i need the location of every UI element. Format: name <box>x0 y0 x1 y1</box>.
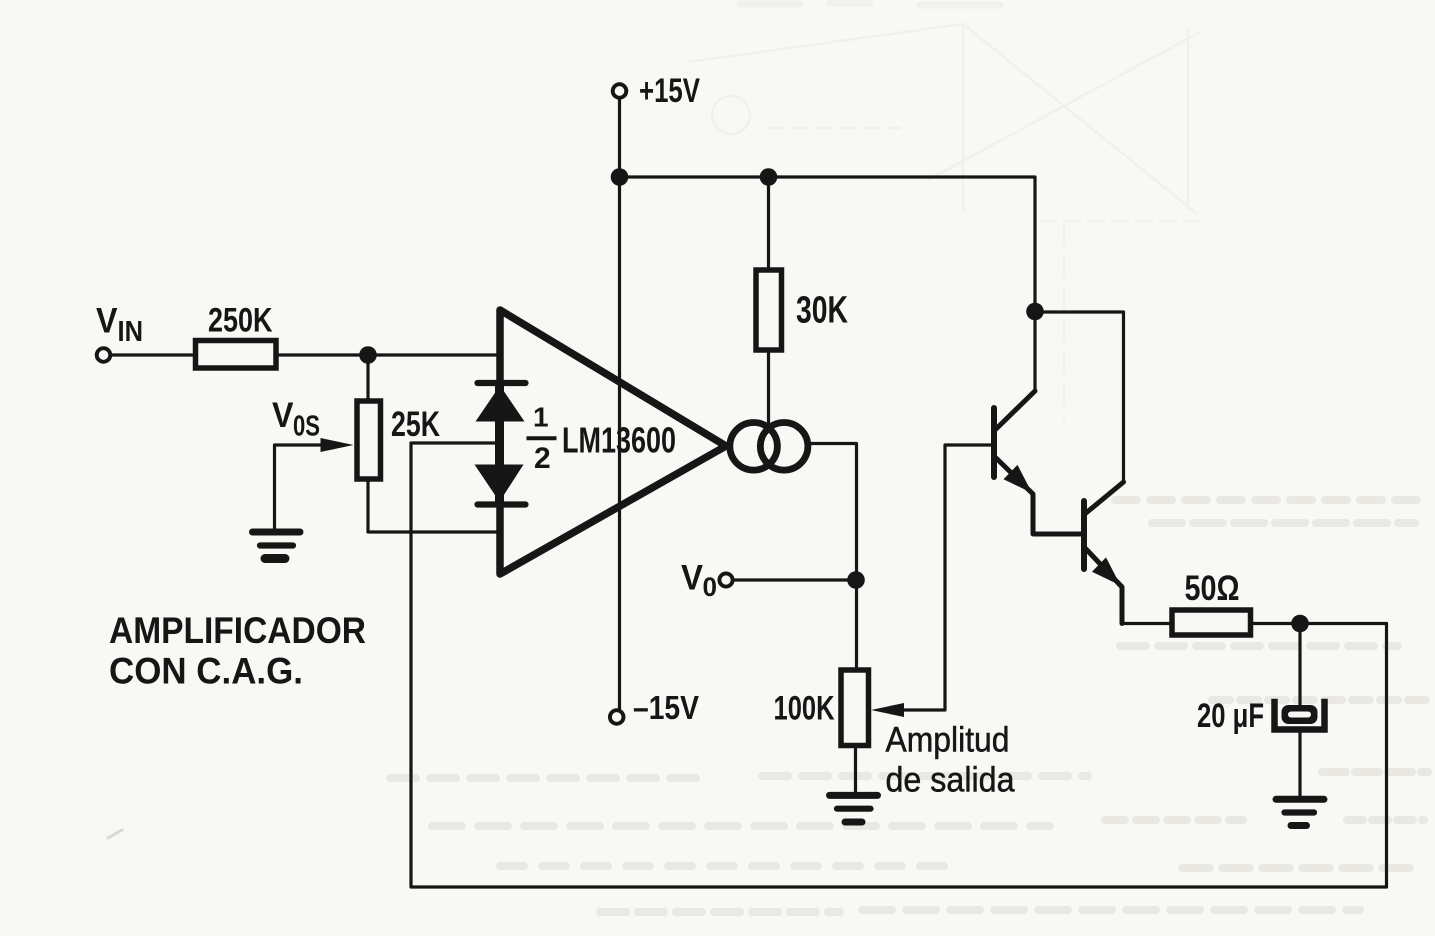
resistor 250K <box>196 341 277 369</box>
junction dot +15V rail left <box>611 168 629 186</box>
transistor Q2 collector <box>1086 482 1124 513</box>
svg-text:100K: 100K <box>774 690 835 728</box>
svg-text:+15V: +15V <box>639 72 700 110</box>
svg-text:0S: 0S <box>293 411 320 443</box>
wire +15V vertical power line through op-amp to -15V <box>618 99 621 710</box>
wire V0 terminal to node <box>733 578 856 581</box>
wire OTA output to V0 node and 100K pot <box>806 444 857 668</box>
capacitor C1 20uF top plate <box>1282 705 1318 724</box>
svg-text:2: 2 <box>534 442 551 475</box>
svg-text:LM13600: LM13600 <box>562 420 676 461</box>
svg-text:50Ω: 50Ω <box>1185 569 1240 608</box>
transistor Q1 base bar <box>991 408 997 477</box>
svg-text:V: V <box>272 396 294 435</box>
wire 20uF capacitor to ground <box>1298 731 1301 796</box>
resistor 50 ohm <box>1172 610 1251 635</box>
svg-text:1: 1 <box>533 402 549 433</box>
svg-text:0: 0 <box>703 572 718 602</box>
diode D2 lower triangle (pointing down) <box>475 465 524 502</box>
transistor Q1 collector <box>996 391 1035 429</box>
diode D2 lower cathode bar <box>478 501 526 507</box>
capacitor C1 20uF cup <box>1275 702 1325 730</box>
wire node A down to 25K pot <box>366 355 369 398</box>
svg-text:de salida: de salida <box>886 761 1015 800</box>
junction dot V0 node <box>847 571 865 589</box>
svg-text:20 μF: 20 μF <box>1197 697 1264 735</box>
OTA output current-source symbol (double circle) <box>730 423 808 471</box>
transistor Q1 emitter arrow <box>1004 465 1033 493</box>
wire VIN terminal to 250K <box>111 353 194 356</box>
resistor 30K <box>756 270 782 350</box>
svg-text:Amplitud: Amplitud <box>886 721 1010 760</box>
svg-text:AMPLIFICADOR: AMPLIFICADOR <box>109 610 366 651</box>
wire output node down to 20uF capacitor <box>1298 624 1301 708</box>
wire +15V rail to transistor collector branch <box>620 177 1036 390</box>
ground under 20uF <box>1276 799 1324 825</box>
terminal -15V <box>610 710 624 724</box>
wire 50 ohm to output node and right edge <box>1254 622 1387 625</box>
transistor Q1 emitter <box>996 458 1081 534</box>
terminal +15V <box>613 84 627 98</box>
wire feedback loop from diode midpoint around bottom to 50ohm output node <box>411 443 1387 887</box>
op-amp U1 triangle 1/2 LM13600 <box>500 310 726 574</box>
svg-text:30K: 30K <box>796 290 848 332</box>
wire 30K to OTA output symbol <box>767 350 770 423</box>
svg-text:CON C.A.G.: CON C.A.G. <box>109 651 303 692</box>
potentiometer 100K wiper arrow <box>871 703 904 717</box>
junction dot Q1 collector node <box>1026 303 1044 321</box>
svg-text:25K: 25K <box>391 405 440 444</box>
wire Q2 emitter to 50 ohm resistor <box>1122 622 1169 625</box>
svg-text:–15V: –15V <box>633 689 699 726</box>
diode chain middle anode link <box>495 384 504 504</box>
diode D1 upper (pointing up) cathode bar <box>478 380 526 386</box>
terminal V0 <box>719 573 732 586</box>
transistor Q2 emitter <box>1086 549 1122 624</box>
wire rail down to 30K <box>767 177 770 270</box>
potentiometer 25K body <box>357 401 381 479</box>
wire 250K to node A and op-amp input <box>279 353 501 356</box>
wire V0S to 25K wiper and down to ground <box>275 445 331 529</box>
svg-text:V: V <box>681 559 704 598</box>
junction dot +15V rail at 30K <box>760 168 778 186</box>
diode D1 upper triangle <box>476 386 525 422</box>
wire 100K wiper to Q1 base <box>898 445 992 710</box>
ground under 100K <box>830 795 878 822</box>
junction dot output node <box>1291 615 1309 633</box>
node A junction dot <box>359 346 377 364</box>
wire 25K bottom to op-amp lower input <box>368 481 500 532</box>
wire Q1 collector node to Q2 collector <box>1035 312 1124 482</box>
ground under V0S <box>253 532 301 559</box>
svg-text:V: V <box>96 302 118 341</box>
potentiometer 100K body <box>841 670 869 746</box>
terminal VIN <box>97 348 111 362</box>
wire 100K bottom to ground <box>854 748 857 793</box>
potentiometer 25K wiper arrow <box>321 438 354 452</box>
svg-text:250K: 250K <box>208 302 273 340</box>
transistor Q2 emitter arrow <box>1092 557 1121 585</box>
svg-text:IN: IN <box>118 316 144 348</box>
transistor Q2 base bar <box>1081 501 1087 569</box>
